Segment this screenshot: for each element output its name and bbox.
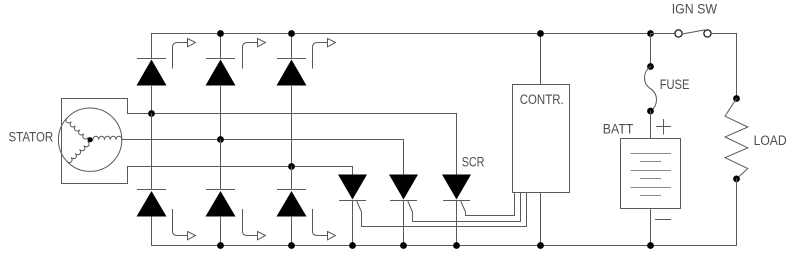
junction dot controller top (537, 30, 544, 37)
svg-text:FUSE: FUSE (660, 77, 690, 92)
wire D5 anode to bottom bus (220, 217, 222, 246)
svg-text:IGN SW: IGN SW (672, 2, 718, 17)
battery plate short 1 (641, 161, 661, 163)
svg-text:CONTR.: CONTR. (520, 92, 564, 107)
fuse terminal dot bottom (647, 108, 654, 115)
current arrow bottom 3 (313, 210, 328, 236)
node B junction dot (217, 136, 224, 143)
ignition switch lever (682, 30, 705, 34)
stator neutral junction (88, 137, 93, 142)
junction dot D2 top (217, 30, 224, 37)
wire Q3 cathode to bottom bus (456, 201, 458, 246)
junction dot Q3 bottom (453, 242, 460, 249)
wire phase C (to SCR1 anode) (128, 167, 353, 175)
diode D2 (207, 34, 235, 59)
battery minus sign (656, 219, 671, 221)
stator circle (58, 108, 121, 171)
junction dot D6 bottom (288, 242, 295, 249)
ignition switch S1 (651, 33, 675, 35)
SCR Q1 gate wire (357, 193, 527, 227)
svg-text:LOAD: LOAD (754, 133, 787, 148)
wire load to bottom bus (736, 179, 738, 246)
diode D1 (138, 58, 166, 60)
SCR Q2 gate wire (408, 193, 521, 222)
battery plate long 2 (631, 170, 671, 172)
SCR Q1 (338, 175, 367, 200)
current arrow top 1 (173, 43, 188, 69)
wire D3 anode to node C (291, 86, 293, 167)
SCR Q3 (442, 175, 471, 200)
current arrow bottom 2 (243, 210, 258, 236)
svg-text:STATOR: STATOR (9, 130, 54, 145)
svg-text:SCR: SCR (462, 155, 485, 170)
wire D1 anode to node A (151, 86, 153, 114)
stator winding C (lower-left) (67, 142, 91, 164)
wire fuse to battery (650, 111, 652, 139)
load terminal dot top (733, 95, 740, 102)
junction dot D3 top (288, 30, 295, 37)
battery plate long 3 (631, 187, 671, 189)
wire controller to top bus (540, 34, 542, 85)
battery plus sign (657, 120, 671, 135)
wire Q1 cathode to bottom bus (352, 201, 354, 246)
SCR Q2 (389, 175, 418, 200)
load resistor R1 (725, 99, 748, 179)
wire top bus to fuse (650, 34, 652, 67)
fuse terminal dot top (647, 63, 654, 70)
stator winding B (upper-left) (65, 118, 88, 141)
junction dot battery bottom (647, 242, 654, 249)
wire bottom bus (152, 217, 737, 246)
SCR Q3 gate wire (461, 193, 515, 216)
controller box U1 (513, 85, 570, 193)
svg-text:BATT: BATT (603, 121, 634, 136)
wire controller to bottom bus (540, 193, 542, 246)
wire D6 anode to bottom bus (291, 217, 293, 246)
wire Q2 cathode to bottom bus (403, 201, 405, 246)
diode D6 (lower, phase C) (278, 167, 306, 190)
current arrow bottom 1 (173, 210, 188, 236)
junction dot fuse branch top (647, 30, 654, 37)
fuse F1 (645, 67, 657, 112)
stator frame (62, 99, 152, 184)
diode D5 (lower, phase B) (207, 140, 235, 190)
battery plate short 3 (641, 195, 661, 197)
battery plate short 2 (641, 178, 661, 180)
junction dot D5 bottom (217, 242, 224, 249)
wire phase B (to SCR2 anode) (122, 140, 404, 175)
diode D3 (278, 34, 306, 59)
load terminal dot bottom (733, 176, 740, 183)
junction dot controller bottom (537, 242, 544, 249)
wire switch to load (711, 34, 736, 99)
wire battery to bottom bus (650, 209, 652, 246)
wire top bus (152, 34, 652, 59)
node C junction dot (288, 163, 295, 170)
junction dot Q2 bottom (400, 242, 407, 249)
stator winding A (right) (93, 136, 122, 140)
node A junction dot (148, 110, 155, 117)
battery plate long 1 (631, 153, 671, 155)
wire D2 anode to node B (220, 86, 222, 140)
diode D4 (lower, phase A) (138, 114, 166, 190)
current arrow top 3 (313, 43, 328, 69)
junction dot Q1 bottom (349, 242, 356, 249)
wire phase A (to SCR3 anode) (152, 114, 457, 175)
current arrow top 2 (243, 43, 258, 69)
battery BT1 box (621, 139, 681, 209)
